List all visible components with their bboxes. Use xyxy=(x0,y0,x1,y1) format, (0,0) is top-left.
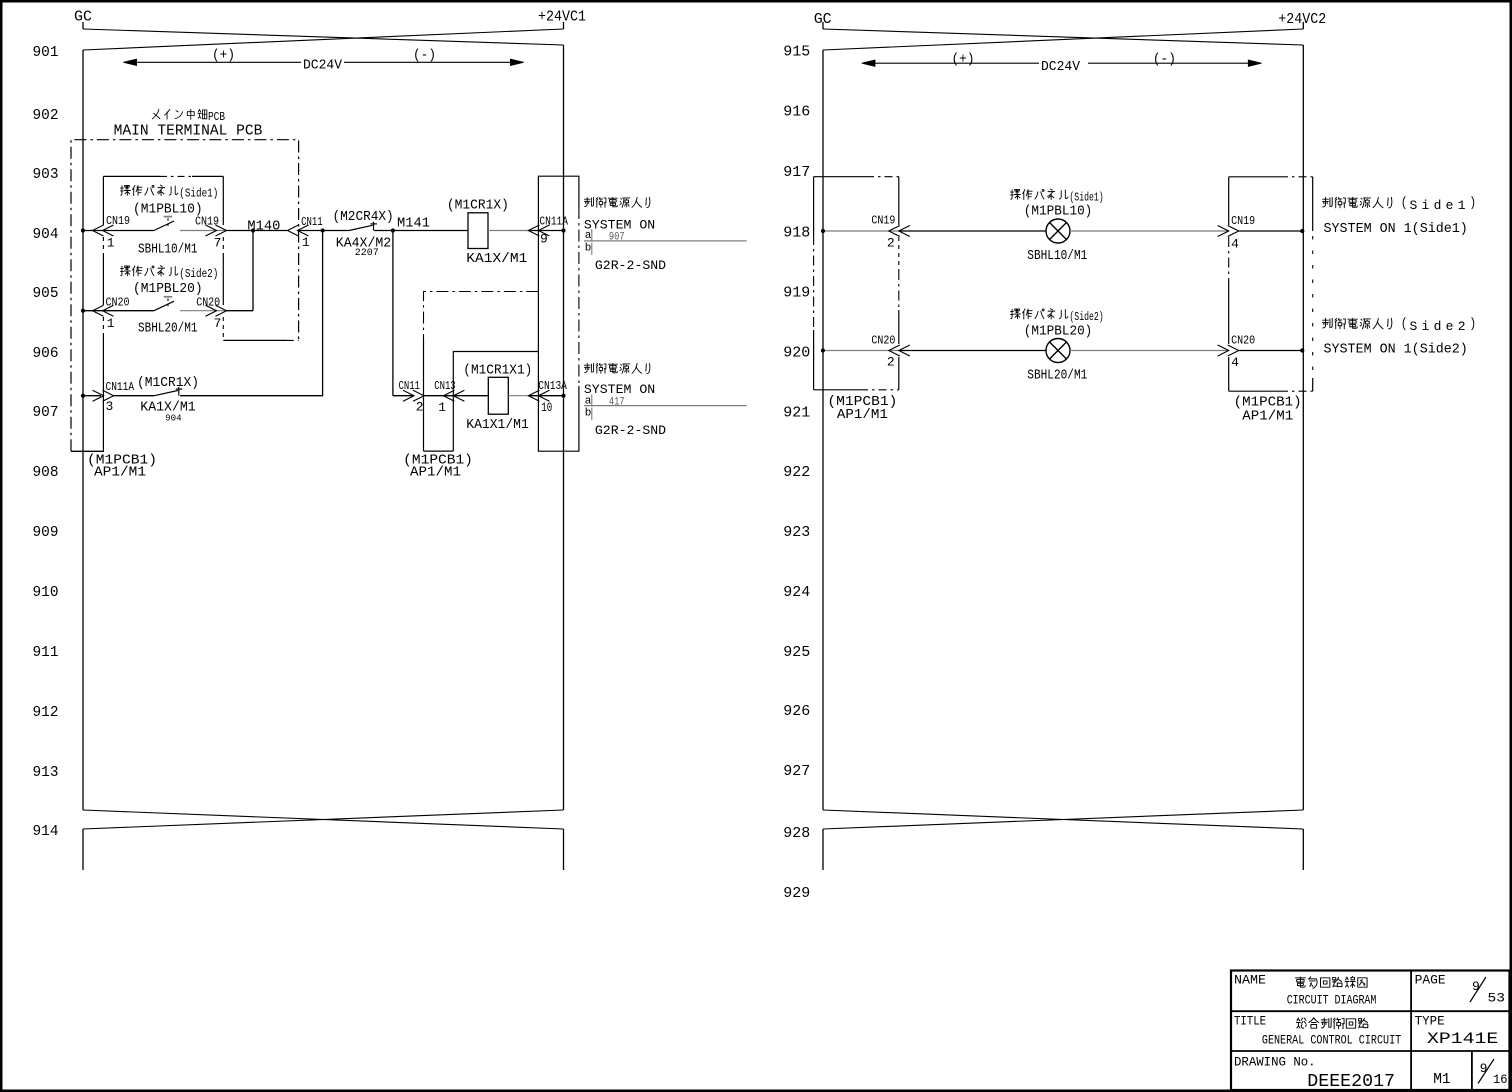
svg-text:918: 918 xyxy=(783,225,810,242)
svg-text:M1: M1 xyxy=(1433,1071,1451,1088)
svg-text:924: 924 xyxy=(783,584,810,601)
wire GC bus bottom stub xyxy=(82,829,84,870)
connector CN19 pin2 chevron xyxy=(899,226,910,237)
wire CN20 pin2 to lamp SBHL20 xyxy=(899,350,1046,352)
svg-text:(Side2): (Side2) xyxy=(1069,310,1103,324)
wire top crossover diagonal right ladder b xyxy=(823,29,1303,50)
connector CN20 pin7 chevron xyxy=(206,305,217,316)
connector CN19 pin7 chevron xyxy=(206,225,217,236)
svg-text:913: 913 xyxy=(33,764,59,781)
junction dot CN11 branch xyxy=(321,228,325,232)
svg-text:M141: M141 xyxy=(397,216,430,232)
svg-text:915: 915 xyxy=(783,44,810,61)
wire CN20 pin4 to +24VC2 bus xyxy=(1239,350,1303,352)
svg-text:417: 417 xyxy=(609,397,625,409)
wire M140 down to SBHL20 row xyxy=(252,231,254,311)
wire CN11 to contact M2CR4X xyxy=(298,230,350,232)
arrow DC24V right ladder left segment xyxy=(862,62,1039,64)
wire GC bus vertical right ladder xyxy=(822,50,824,810)
svg-text:925: 925 xyxy=(783,644,810,661)
box M1PCB1 AP1 left boundary xyxy=(814,176,866,178)
title block vertical divider xyxy=(1410,971,1412,1091)
pushbutton SBHL10/M1 contact xyxy=(154,221,174,231)
svg-text:919: 919 xyxy=(783,285,810,302)
svg-text:CN20: CN20 xyxy=(871,334,895,348)
contact KA1X/M1 normally-open row907 xyxy=(154,391,178,396)
wire +24VC1 bus vertical xyxy=(563,45,565,810)
wire panel box bottom link to PCB boundary xyxy=(223,339,287,341)
svg-text:(Side2): (Side2) xyxy=(179,267,218,281)
junction dot GC row904 xyxy=(81,228,85,232)
svg-text:10: 10 xyxy=(541,400,552,415)
svg-text:SBHL20/M1: SBHL20/M1 xyxy=(138,321,198,337)
wire row907 corner into CN11 branch xyxy=(180,395,323,397)
box M1PCB1 AP1 right boundary xyxy=(1229,176,1280,178)
svg-text:CN20: CN20 xyxy=(196,296,220,310)
svg-text:CN11A: CN11A xyxy=(106,380,135,394)
svg-text:AP1/M1: AP1/M1 xyxy=(94,465,146,481)
svg-text:920: 920 xyxy=(783,345,810,362)
wire GC bus vertical (left ladder) xyxy=(82,50,84,810)
svg-text:(M1PBL20): (M1PBL20) xyxy=(133,281,203,297)
svg-text:7: 7 xyxy=(214,316,222,331)
svg-text:907: 907 xyxy=(33,404,59,421)
junction dot +24VC2 row920 xyxy=(1300,348,1304,352)
title block vertical divider drawing row xyxy=(1471,1051,1473,1090)
svg-text:910: 910 xyxy=(33,584,59,601)
junction dot +24VC2 row918 xyxy=(1300,229,1304,233)
dash-dot link KA1X box row xyxy=(424,292,539,341)
wire row907 from GC bus xyxy=(83,395,101,397)
wire SBHL20 output gray xyxy=(180,310,226,312)
svg-text:922: 922 xyxy=(783,464,810,481)
junction dot GC row920 xyxy=(821,348,825,352)
svg-text:53: 53 xyxy=(1488,991,1506,1006)
title block outer box xyxy=(1231,971,1510,1091)
wire lamp to CN19 pin4 gray xyxy=(1070,230,1229,232)
svg-text:905: 905 xyxy=(33,285,59,302)
label operator panel side1 japanese xyxy=(121,185,131,195)
box AP1/M1 right edge dash-dot middle xyxy=(578,207,580,386)
svg-text:CN11: CN11 xyxy=(301,215,323,229)
svg-text:(-): (-) xyxy=(1153,52,1176,68)
svg-text:CN19: CN19 xyxy=(1231,214,1255,228)
wire KA1X link down to CN11 pin2 xyxy=(423,340,425,451)
svg-text:3: 3 xyxy=(106,399,114,414)
svg-text:SYSTEM ON 1(Side1): SYSTEM ON 1(Side1) xyxy=(1324,222,1468,237)
svg-text:+24VC2: +24VC2 xyxy=(1278,11,1326,28)
svg-text:906: 906 xyxy=(33,345,59,362)
connector CN13A pin10 chevron xyxy=(538,390,549,401)
svg-text:904: 904 xyxy=(165,414,182,424)
svg-text:2: 2 xyxy=(416,400,424,415)
wire row907 M141 to CN11 pin2 xyxy=(393,395,414,397)
wire CN19 pin4 to +24VC2 bus xyxy=(1239,230,1303,232)
connector CN19 pin4 chevron xyxy=(1218,226,1229,237)
wire GC bus bottom stub right xyxy=(822,829,824,870)
svg-text:a: a xyxy=(585,230,592,242)
svg-text:XP141E: XP141E xyxy=(1427,1030,1498,1048)
svg-text:(M1PBL10): (M1PBL10) xyxy=(133,202,203,218)
svg-text:SBHL20/M1: SBHL20/M1 xyxy=(1027,368,1087,384)
svg-text:912: 912 xyxy=(33,704,59,721)
svg-text:KA1X/M1: KA1X/M1 xyxy=(466,251,527,267)
svg-text:907: 907 xyxy=(609,232,625,244)
svg-text:(M1CR1X): (M1CR1X) xyxy=(447,198,509,214)
svg-text:CN19: CN19 xyxy=(195,215,219,229)
title block divider below TITLE row xyxy=(1231,1050,1510,1052)
svg-text:1: 1 xyxy=(107,316,115,331)
wire contact to M141 to coil KA1X xyxy=(374,230,468,232)
svg-text:GENERAL CONTROL CIRCUIT: GENERAL CONTROL CIRCUIT xyxy=(1262,1033,1401,1048)
connector CN19 pin1 chevron xyxy=(103,225,114,236)
svg-text:1: 1 xyxy=(107,236,115,251)
box KA1X1 coil boundary top xyxy=(453,352,538,452)
svg-text:(M1CR1X1): (M1CR1X1) xyxy=(463,363,532,379)
svg-text:927: 927 xyxy=(783,763,810,780)
svg-text:917: 917 xyxy=(783,164,810,181)
wire +24VC1 stub top xyxy=(563,22,565,29)
svg-text:2207: 2207 xyxy=(355,248,379,259)
junction dot bus row904 xyxy=(561,228,565,232)
svg-text:(M1PBL10): (M1PBL10) xyxy=(1024,204,1093,220)
wire +24VC2 bus bottom stub xyxy=(1302,829,1304,870)
wire coil KA1X1 to CN13A gray xyxy=(508,395,528,397)
lamp SBHL10/M1 xyxy=(1046,219,1070,243)
title block title japanese xyxy=(1296,1018,1306,1028)
svg-text:MAIN TERMINAL PCB: MAIN TERMINAL PCB xyxy=(114,123,263,140)
junction dot M141 xyxy=(391,228,395,232)
svg-text:SYSTEM ON 1(Side2): SYSTEM ON 1(Side2) xyxy=(1324,343,1468,358)
svg-text:911: 911 xyxy=(33,644,59,661)
junction dot M140 xyxy=(251,228,255,232)
svg-text:(M1CR1X): (M1CR1X) xyxy=(137,375,199,391)
svg-text:928: 928 xyxy=(783,825,810,842)
connector CN13 pin1 chevron xyxy=(453,390,464,401)
lamp SBHL20/M1 xyxy=(1046,339,1070,363)
relay coil KA1X1/M1 xyxy=(488,377,508,414)
box operator panel M1PBL10/M1PBL20 top edge xyxy=(103,175,160,177)
box main terminal PCB dash-dot boundary xyxy=(71,140,299,452)
svg-text:AP1/M1: AP1/M1 xyxy=(1242,409,1293,425)
annotation side1 japanese right xyxy=(1323,197,1333,207)
contact KA4X/M2 normally-open xyxy=(349,225,373,230)
svg-text:(Side1): (Side1) xyxy=(179,187,218,201)
svg-text:904: 904 xyxy=(33,226,59,243)
title block divider below NAME row xyxy=(1231,1010,1510,1012)
svg-text:SBHL10/M1: SBHL10/M1 xyxy=(138,242,198,258)
svg-text:CN11A: CN11A xyxy=(539,215,568,229)
svg-text:4: 4 xyxy=(1231,355,1239,370)
svg-text:923: 923 xyxy=(783,524,810,541)
lamp row918 wire gray from bus xyxy=(823,230,899,232)
arrow DC24V span right segment xyxy=(344,61,524,63)
svg-text:CN19: CN19 xyxy=(106,214,130,228)
svg-text:908: 908 xyxy=(33,464,59,481)
svg-text:CN13A: CN13A xyxy=(538,379,567,393)
svg-text:b: b xyxy=(585,407,592,419)
svg-text:(-): (-) xyxy=(413,48,436,64)
svg-text:KA1X1/M1: KA1X1/M1 xyxy=(466,417,529,433)
svg-text:2: 2 xyxy=(887,355,895,370)
svg-text:DEEE2017: DEEE2017 xyxy=(1307,1072,1395,1092)
svg-text:902: 902 xyxy=(33,107,59,124)
svg-text:901: 901 xyxy=(33,44,59,61)
svg-text:(Side1): (Side1) xyxy=(1069,191,1103,205)
svg-text:9: 9 xyxy=(1480,1061,1488,1076)
svg-text:PAGE: PAGE xyxy=(1415,972,1446,987)
junction dot bus row907 xyxy=(561,394,565,398)
wire CN19 pin2 to lamp SBHL10 xyxy=(899,230,1046,232)
svg-text:CN19: CN19 xyxy=(871,214,895,228)
svg-text:G2R-2-SND: G2R-2-SND xyxy=(595,423,666,438)
label operator panel side2 japanese xyxy=(121,266,131,276)
junction dot GC row905 xyxy=(81,309,85,313)
svg-text:AP1/M1: AP1/M1 xyxy=(410,465,461,481)
connector CN20 pin2 chevron xyxy=(899,345,910,356)
wire CN13 to coil KA1X1 xyxy=(454,395,488,397)
wire +24VC1 bus bottom stub xyxy=(563,829,565,870)
svg-text:1: 1 xyxy=(302,235,310,250)
annotation system on row907 japanese xyxy=(584,363,593,372)
wire +24VC2 stub top xyxy=(1302,22,1304,29)
svg-text:CIRCUIT DIAGRAM: CIRCUIT DIAGRAM xyxy=(1287,993,1377,1008)
relay coil KA1X/M1 xyxy=(468,213,488,249)
wire bottom crossover diagonal right xyxy=(83,810,564,829)
title block name japanese xyxy=(1295,977,1305,987)
wire SBHL20 row to M140 riser xyxy=(226,310,253,312)
wire bottom crossover right ladder a xyxy=(823,810,1303,829)
label main terminal PCB japanese xyxy=(152,109,160,118)
svg-text:SYSTEM ON: SYSTEM ON xyxy=(584,218,655,233)
lamp row920 wire gray from bus xyxy=(823,350,899,352)
label operator panel side1 right ladder xyxy=(1011,189,1021,199)
svg-text:(M1PBL20): (M1PBL20) xyxy=(1024,324,1093,340)
wire top crossover diagonal +24VC1 to left xyxy=(83,29,564,50)
pushbutton SBHL20/M1 wire into panel xyxy=(83,310,154,312)
svg-text:914: 914 xyxy=(33,823,59,840)
box operator panel left edge xyxy=(102,176,104,225)
svg-text:b: b xyxy=(585,243,592,255)
wire bottom crossover right ladder b xyxy=(823,810,1303,829)
svg-text:(+): (+) xyxy=(212,48,235,64)
svg-text:916: 916 xyxy=(783,104,810,121)
box AP1/M1 PCB right side xyxy=(538,176,579,451)
svg-text:(M2CR4X): (M2CR4X) xyxy=(333,209,394,225)
pushbutton SBHL20/M1 contact xyxy=(154,301,174,311)
wire CN11 pin2 to CN13 pin1 xyxy=(424,395,454,397)
pushbutton SBHL10/M1 wire into panel xyxy=(83,230,154,232)
svg-text:929: 929 xyxy=(783,885,810,902)
svg-text:CN20: CN20 xyxy=(1231,334,1255,348)
arrow DC24V span left segment xyxy=(124,61,302,63)
svg-text:903: 903 xyxy=(33,166,59,183)
wire +24VC2 bus vertical xyxy=(1302,45,1304,810)
wire SBHL10 output gray xyxy=(180,230,226,232)
svg-text:921: 921 xyxy=(783,405,810,422)
box operator panel right edge xyxy=(222,176,224,225)
svg-text:16: 16 xyxy=(1493,1072,1508,1087)
svg-text:DC24V: DC24V xyxy=(303,58,343,74)
wire connector legs bottom join middle xyxy=(424,450,454,452)
wire lamp to CN20 pin4 gray xyxy=(1070,350,1229,352)
wire top crossover diagonal right ladder a xyxy=(823,29,1303,45)
svg-text:SBHL10/M1: SBHL10/M1 xyxy=(1027,248,1087,264)
svg-text:AP1/M1: AP1/M1 xyxy=(837,407,888,423)
svg-text:TITLE: TITLE xyxy=(1234,1014,1266,1029)
wire M141 down to row907 xyxy=(392,231,394,396)
annotation side2 japanese right xyxy=(1323,318,1333,328)
connector CN11A pin3 chevron xyxy=(93,390,104,401)
junction dot GC row907 xyxy=(81,394,85,398)
junction dot GC row918 xyxy=(821,229,825,233)
svg-text:SYSTEM ON: SYSTEM ON xyxy=(584,382,655,397)
connector CN11 pin1 chevron xyxy=(298,225,309,236)
svg-text:(+): (+) xyxy=(952,52,975,68)
wire coil KA1X to CN11A gray xyxy=(488,230,528,232)
svg-text:DRAWING No.: DRAWING No. xyxy=(1234,1055,1316,1070)
svg-text:CN13: CN13 xyxy=(434,379,456,393)
svg-text:G2R-2-SND: G2R-2-SND xyxy=(595,258,666,273)
svg-text:TYPE: TYPE xyxy=(1415,1014,1445,1029)
svg-text:NAME: NAME xyxy=(1234,973,1266,988)
svg-text:9: 9 xyxy=(540,232,548,247)
arrow DC24V right ladder right segment xyxy=(1088,62,1261,64)
svg-text:CN11: CN11 xyxy=(399,379,421,393)
svg-text:2: 2 xyxy=(887,236,895,251)
annotation system on row904 japanese xyxy=(584,197,593,206)
label operator panel side2 right ladder xyxy=(1011,309,1021,319)
svg-text:926: 926 xyxy=(783,703,810,720)
connector CN20 pin4 chevron xyxy=(1218,345,1229,356)
wire CN11 branch down to row907 xyxy=(322,231,324,396)
svg-text:1: 1 xyxy=(438,400,446,415)
svg-text:909: 909 xyxy=(33,524,59,541)
wire CN19-7 to M140 to CN11 xyxy=(226,230,287,232)
wire GC stub top left xyxy=(82,22,84,29)
box KA1X1 boundary dash-dot portion xyxy=(516,351,539,353)
connector CN11A pin9 chevron xyxy=(538,225,549,236)
connector CN20 pin1 chevron xyxy=(103,305,114,316)
svg-text:7: 7 xyxy=(214,236,222,251)
svg-text:+24VC1: +24VC1 xyxy=(538,9,586,26)
connector CN11 pin2 chevron xyxy=(403,390,414,401)
svg-text:DC24V: DC24V xyxy=(1041,59,1081,75)
box main terminal PCB bottom edge xyxy=(71,450,104,452)
wire CN11A pin3 to contact KA1X xyxy=(114,395,155,397)
wire top crossover diagonal GC to right xyxy=(83,29,564,45)
wire bottom crossover diagonal left xyxy=(83,810,564,829)
wire GC stub top right ladder xyxy=(822,22,824,29)
svg-text:4: 4 xyxy=(1231,237,1239,252)
